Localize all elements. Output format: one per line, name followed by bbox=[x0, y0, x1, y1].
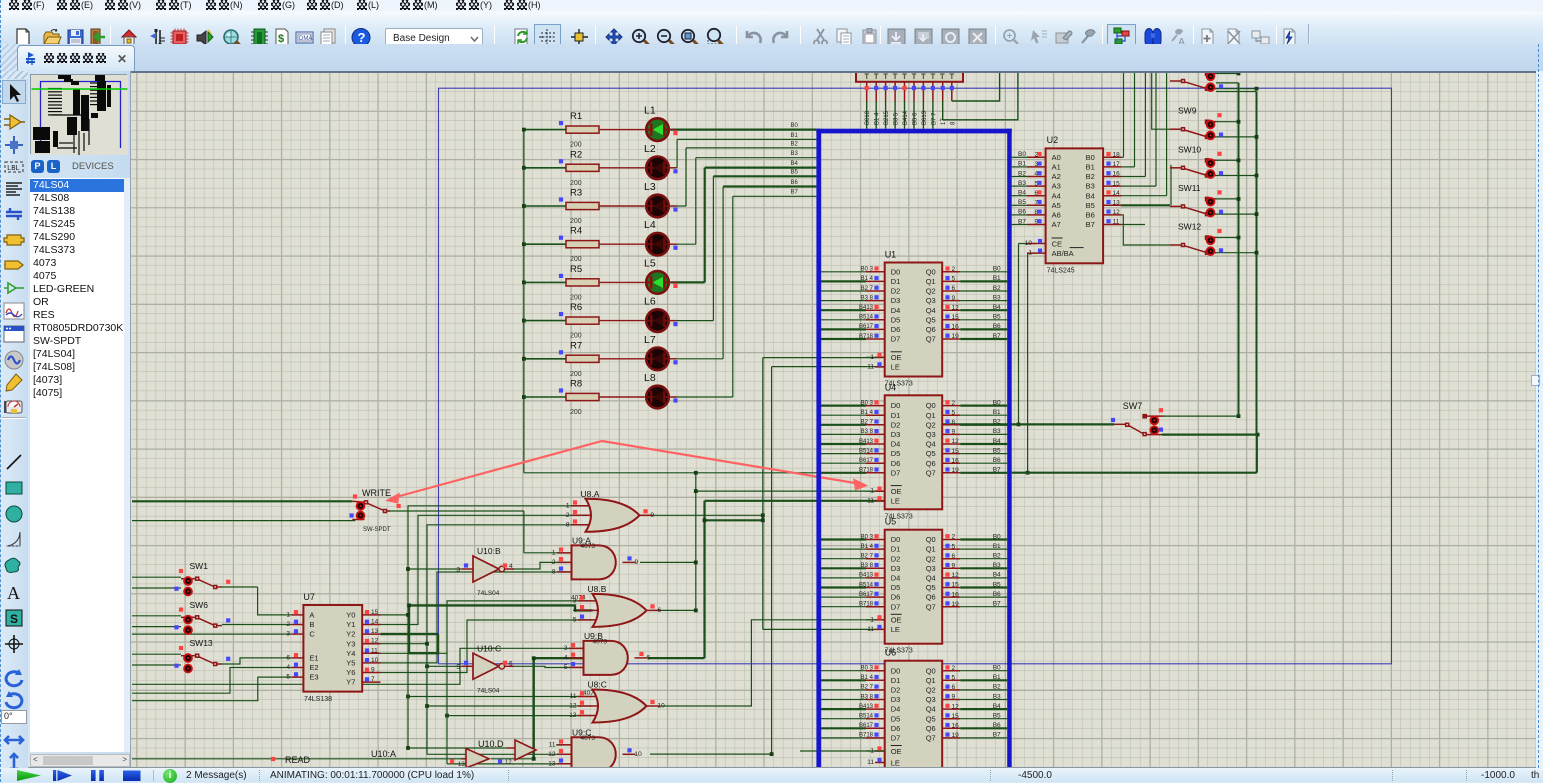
svg-text:Q6: Q6 bbox=[926, 593, 936, 602]
svg-text:D2: D2 bbox=[891, 420, 901, 429]
svg-text:Q0: Q0 bbox=[926, 666, 936, 675]
svg-text:B7: B7 bbox=[791, 190, 799, 196]
svg-text:5: 5 bbox=[564, 664, 568, 671]
svg-text:16: 16 bbox=[952, 324, 960, 331]
svg-text:B3: B3 bbox=[993, 294, 1001, 301]
svg-text:5: 5 bbox=[952, 276, 956, 283]
svg-text:U1: U1 bbox=[885, 250, 897, 260]
svg-text:D3: D3 bbox=[891, 564, 901, 573]
svg-text:15: 15 bbox=[952, 713, 960, 720]
svg-text:B5: B5 bbox=[993, 581, 1001, 588]
svg-text:11: 11 bbox=[867, 759, 874, 766]
svg-text:B1: B1 bbox=[791, 133, 799, 139]
svg-text:11: 11 bbox=[371, 647, 378, 654]
svg-text:B2: B2 bbox=[791, 141, 799, 147]
svg-text:CE: CE bbox=[1052, 239, 1062, 248]
svg-text:B0 3: B0 3 bbox=[861, 267, 874, 273]
svg-text:B: B bbox=[309, 620, 314, 629]
svg-text:12: 12 bbox=[952, 703, 960, 710]
svg-text:3: 3 bbox=[564, 645, 568, 652]
svg-text:U8.B: U8.B bbox=[588, 584, 607, 594]
svg-text:E3: E3 bbox=[309, 673, 318, 682]
svg-text:Q7: Q7 bbox=[926, 335, 936, 344]
svg-text:U2: U2 bbox=[1047, 135, 1059, 145]
svg-text:14: 14 bbox=[1113, 190, 1121, 197]
svg-text:Y3: Y3 bbox=[346, 639, 355, 648]
svg-text:B3 8: B3 8 bbox=[861, 429, 874, 435]
svg-text:B2: B2 bbox=[993, 553, 1001, 560]
svg-text:D2: D2 bbox=[891, 287, 901, 296]
svg-text:B2 7: B2 7 bbox=[861, 554, 874, 560]
svg-text:B5: B5 bbox=[993, 447, 1001, 454]
svg-text:Q3: Q3 bbox=[926, 695, 936, 704]
svg-text:U10:C: U10:C bbox=[477, 643, 501, 653]
svg-text:B1 4: B1 4 bbox=[861, 276, 874, 282]
svg-text:D6: D6 bbox=[891, 724, 901, 733]
svg-text:Y4: Y4 bbox=[346, 649, 355, 658]
svg-text:B1: B1 bbox=[1086, 163, 1095, 172]
svg-text:B0: B0 bbox=[791, 123, 799, 129]
svg-text:B0: B0 bbox=[1086, 153, 1095, 162]
svg-text:Y0: Y0 bbox=[346, 611, 355, 620]
svg-text:B4: B4 bbox=[993, 438, 1001, 445]
svg-text:D1: D1 bbox=[891, 676, 901, 685]
svg-text:B2: B2 bbox=[1086, 172, 1095, 181]
svg-text:L1: L1 bbox=[644, 105, 656, 117]
svg-text:B617: B617 bbox=[859, 458, 874, 464]
svg-text:B3: B3 bbox=[1018, 180, 1026, 187]
svg-text:B3 8: B3 8 bbox=[861, 563, 874, 569]
svg-text:B4: B4 bbox=[993, 304, 1001, 311]
svg-text:E1: E1 bbox=[309, 654, 318, 663]
svg-text:B6: B6 bbox=[993, 591, 1001, 598]
svg-text:SW9: SW9 bbox=[1178, 106, 1197, 116]
svg-text:15: 15 bbox=[1113, 180, 1121, 187]
svg-text:13: 13 bbox=[371, 628, 379, 635]
svg-text:D1: D1 bbox=[891, 277, 901, 286]
svg-text:13: 13 bbox=[1113, 200, 1121, 207]
svg-text:D4: D4 bbox=[891, 705, 901, 714]
svg-text:R5: R5 bbox=[570, 264, 582, 275]
svg-text:SW6: SW6 bbox=[190, 600, 209, 610]
svg-text:B617: B617 bbox=[859, 592, 874, 598]
svg-text:OE: OE bbox=[891, 747, 902, 756]
svg-text:D0: D0 bbox=[891, 535, 901, 544]
svg-text:R7: R7 bbox=[570, 340, 582, 351]
svg-text:D3: D3 bbox=[891, 296, 901, 305]
svg-text:Y2: Y2 bbox=[346, 630, 355, 639]
svg-text:READ: READ bbox=[285, 755, 311, 765]
svg-text:1: 1 bbox=[870, 488, 874, 495]
svg-text:D5: D5 bbox=[891, 449, 901, 458]
svg-text:A1: A1 bbox=[1052, 163, 1061, 172]
svg-text:Q2: Q2 bbox=[926, 686, 936, 695]
svg-text:14: 14 bbox=[371, 619, 379, 626]
svg-text:200: 200 bbox=[570, 371, 582, 378]
svg-text:LE: LE bbox=[891, 497, 900, 506]
svg-text:B0 3: B0 3 bbox=[861, 534, 874, 540]
svg-text:Q7: Q7 bbox=[926, 602, 936, 611]
svg-text:B0 3: B0 3 bbox=[861, 400, 874, 406]
svg-text:5: 5 bbox=[286, 674, 290, 681]
svg-text:16: 16 bbox=[952, 723, 960, 730]
svg-text:B3: B3 bbox=[791, 151, 799, 157]
svg-text:4: 4 bbox=[509, 563, 513, 570]
svg-text:D3: D3 bbox=[891, 430, 901, 439]
svg-text:74LS04: 74LS04 bbox=[477, 590, 500, 597]
svg-text:B718: B718 bbox=[859, 733, 874, 739]
svg-text:5: 5 bbox=[456, 664, 460, 671]
svg-text:Q5: Q5 bbox=[926, 714, 936, 723]
svg-text:8: 8 bbox=[552, 568, 556, 575]
svg-text:B3: B3 bbox=[1086, 182, 1095, 191]
svg-text:5: 5 bbox=[952, 409, 956, 416]
svg-text:U5: U5 bbox=[885, 517, 897, 527]
svg-text:WRITE: WRITE bbox=[362, 488, 391, 498]
svg-text:D5: D5 bbox=[891, 714, 901, 723]
svg-text:12: 12 bbox=[569, 703, 577, 710]
svg-text:B413: B413 bbox=[859, 704, 874, 710]
svg-text:6: 6 bbox=[647, 654, 651, 661]
svg-text:B2 7: B2 7 bbox=[861, 685, 874, 691]
svg-text:B3 8: B3 8 bbox=[861, 694, 874, 700]
svg-text:6: 6 bbox=[952, 285, 956, 292]
svg-text:D6: D6 bbox=[891, 593, 901, 602]
svg-text:U10:A: U10:A bbox=[371, 749, 396, 759]
svg-text:B413: B413 bbox=[859, 439, 874, 445]
svg-text:B1 4: B1 4 bbox=[875, 112, 881, 125]
svg-text:9: 9 bbox=[952, 429, 956, 436]
svg-text:B718: B718 bbox=[859, 468, 874, 474]
svg-text:SW7: SW7 bbox=[1123, 401, 1143, 411]
svg-text:B718: B718 bbox=[859, 602, 874, 608]
svg-text:SW-SPDT: SW-SPDT bbox=[363, 527, 391, 533]
svg-text:B7: B7 bbox=[993, 333, 1001, 340]
svg-text:LE: LE bbox=[891, 363, 900, 372]
svg-text:Q1: Q1 bbox=[926, 411, 936, 420]
svg-text:9: 9 bbox=[952, 563, 956, 570]
svg-text:11: 11 bbox=[570, 693, 577, 700]
svg-text:B2: B2 bbox=[993, 419, 1001, 426]
svg-text:R2: R2 bbox=[570, 149, 582, 160]
svg-text:U8:C: U8:C bbox=[588, 680, 607, 690]
svg-text:S: S bbox=[10, 612, 18, 626]
svg-text:Q3: Q3 bbox=[926, 430, 936, 439]
svg-text:D5: D5 bbox=[891, 583, 901, 592]
svg-text:200: 200 bbox=[570, 333, 582, 340]
svg-text:Q4: Q4 bbox=[926, 440, 936, 449]
svg-text:9: 9 bbox=[952, 694, 956, 701]
svg-text:D7: D7 bbox=[891, 602, 901, 611]
svg-text:200: 200 bbox=[570, 256, 582, 263]
svg-text:B4: B4 bbox=[1018, 190, 1026, 197]
svg-text:B5: B5 bbox=[993, 713, 1001, 720]
svg-text:B2: B2 bbox=[993, 285, 1001, 292]
svg-text:L7: L7 bbox=[644, 334, 656, 346]
svg-text:D4: D4 bbox=[891, 440, 901, 449]
svg-text:Q4: Q4 bbox=[926, 306, 936, 315]
svg-text:16: 16 bbox=[952, 457, 960, 464]
svg-text:Q2: Q2 bbox=[926, 420, 936, 429]
svg-text:A: A bbox=[309, 611, 314, 620]
svg-text:74LS138: 74LS138 bbox=[304, 696, 332, 703]
svg-text:6: 6 bbox=[952, 684, 956, 691]
svg-text:1: 1 bbox=[870, 354, 874, 361]
svg-text:Q1: Q1 bbox=[926, 676, 936, 685]
svg-text:B613: B613 bbox=[922, 110, 928, 125]
svg-text:L8: L8 bbox=[644, 372, 656, 384]
svg-text:B6: B6 bbox=[1086, 211, 1095, 220]
svg-text:B514: B514 bbox=[859, 448, 874, 454]
svg-text:4: 4 bbox=[573, 607, 577, 614]
svg-text:Q4: Q4 bbox=[926, 574, 936, 583]
svg-text:B1: B1 bbox=[993, 674, 1001, 681]
svg-text:D4: D4 bbox=[891, 306, 901, 315]
svg-text:B3 5: B3 5 bbox=[894, 112, 900, 125]
svg-text:2: 2 bbox=[952, 266, 956, 273]
svg-text:19: 19 bbox=[952, 467, 960, 474]
svg-text:8: 8 bbox=[566, 521, 570, 528]
svg-text:3: 3 bbox=[456, 567, 460, 574]
svg-text:B413: B413 bbox=[859, 305, 874, 311]
svg-text:B1: B1 bbox=[993, 409, 1001, 416]
svg-text:9: 9 bbox=[371, 667, 375, 674]
svg-text:16: 16 bbox=[952, 591, 960, 598]
svg-text:R4: R4 bbox=[570, 226, 582, 237]
svg-text:L6: L6 bbox=[644, 296, 656, 308]
svg-text:D0: D0 bbox=[891, 267, 901, 276]
svg-text:B3: B3 bbox=[993, 562, 1001, 569]
svg-text:U8.A: U8.A bbox=[581, 489, 600, 499]
svg-text:19: 19 bbox=[952, 333, 960, 340]
svg-text:5: 5 bbox=[573, 616, 577, 623]
svg-text:LE: LE bbox=[891, 625, 900, 634]
svg-text:1: 1 bbox=[1028, 250, 1032, 257]
svg-text:B413: B413 bbox=[859, 573, 874, 579]
svg-text:OE: OE bbox=[891, 487, 902, 496]
svg-text:D1: D1 bbox=[891, 545, 901, 554]
svg-text:A7: A7 bbox=[1052, 220, 1061, 229]
svg-text:B1 4: B1 4 bbox=[861, 410, 874, 416]
svg-text:2: 2 bbox=[952, 665, 956, 672]
svg-text:A6: A6 bbox=[1052, 211, 1061, 220]
svg-text:B2 7: B2 7 bbox=[861, 286, 874, 292]
svg-text:B7: B7 bbox=[993, 601, 1001, 608]
svg-text:R6: R6 bbox=[570, 302, 582, 313]
svg-text:Q5: Q5 bbox=[926, 315, 936, 324]
svg-text:D0: D0 bbox=[891, 666, 901, 675]
svg-text:B1: B1 bbox=[993, 275, 1001, 282]
svg-text:B0: B0 bbox=[993, 665, 1001, 672]
svg-text:Q3: Q3 bbox=[926, 296, 936, 305]
svg-text:B3: B3 bbox=[993, 428, 1001, 435]
svg-text:1: 1 bbox=[870, 616, 874, 623]
svg-text:L4: L4 bbox=[644, 219, 656, 231]
svg-text:B718: B718 bbox=[859, 334, 874, 340]
svg-text:B7: B7 bbox=[1018, 218, 1026, 225]
svg-text:U6: U6 bbox=[885, 648, 897, 658]
svg-text:U10:B: U10:B bbox=[477, 546, 501, 556]
svg-text:B1: B1 bbox=[1018, 161, 1026, 168]
svg-text:B6: B6 bbox=[1018, 209, 1026, 216]
svg-text:B7 7: B7 7 bbox=[931, 112, 937, 125]
svg-text:SW13: SW13 bbox=[190, 638, 213, 648]
svg-text:A2: A2 bbox=[1052, 172, 1061, 181]
svg-text:B0: B0 bbox=[1018, 151, 1026, 158]
svg-text:Y7: Y7 bbox=[346, 678, 355, 687]
svg-text:B5: B5 bbox=[791, 170, 799, 176]
svg-text:2: 2 bbox=[952, 534, 956, 541]
svg-text:19: 19 bbox=[952, 601, 960, 608]
svg-text:12: 12 bbox=[952, 572, 960, 579]
svg-text:2: 2 bbox=[552, 559, 556, 566]
svg-text:15: 15 bbox=[952, 448, 960, 455]
svg-text:B514: B514 bbox=[859, 315, 874, 321]
svg-text:D7: D7 bbox=[891, 734, 901, 743]
svg-text:12: 12 bbox=[505, 760, 512, 766]
svg-text:4073: 4073 bbox=[593, 638, 608, 645]
svg-text:C: C bbox=[309, 630, 315, 639]
svg-text:16: 16 bbox=[1113, 171, 1121, 178]
svg-text:D4: D4 bbox=[891, 574, 901, 583]
svg-text:Q5: Q5 bbox=[926, 449, 936, 458]
svg-text:B1: B1 bbox=[993, 543, 1001, 550]
svg-text:11: 11 bbox=[1113, 219, 1120, 226]
svg-text:1: 1 bbox=[552, 549, 556, 556]
svg-text:12: 12 bbox=[548, 751, 556, 758]
svg-text:5: 5 bbox=[952, 543, 956, 550]
svg-text:200: 200 bbox=[570, 218, 582, 225]
svg-text:6: 6 bbox=[952, 553, 956, 560]
svg-text:B3 8: B3 8 bbox=[861, 295, 874, 301]
svg-text:12: 12 bbox=[952, 304, 960, 311]
svg-text:10: 10 bbox=[658, 703, 666, 710]
svg-text:17: 17 bbox=[941, 118, 947, 125]
svg-text:6: 6 bbox=[509, 660, 513, 667]
svg-text:B0: B0 bbox=[993, 266, 1001, 273]
svg-text:6: 6 bbox=[952, 419, 956, 426]
svg-text:D7: D7 bbox=[891, 335, 901, 344]
svg-text:B5: B5 bbox=[1086, 201, 1095, 210]
svg-text:9: 9 bbox=[651, 512, 655, 519]
svg-text:200: 200 bbox=[570, 142, 582, 149]
svg-text:A3: A3 bbox=[1052, 182, 1061, 191]
svg-text:Q2: Q2 bbox=[926, 287, 936, 296]
svg-text:B5 6: B5 6 bbox=[912, 112, 918, 125]
svg-text:Q7: Q7 bbox=[926, 734, 936, 743]
svg-text:L2: L2 bbox=[644, 143, 656, 155]
svg-text:A4: A4 bbox=[1052, 191, 1061, 200]
svg-text:LBL: LBL bbox=[7, 165, 20, 173]
svg-text:D7: D7 bbox=[891, 468, 901, 477]
svg-text:B4: B4 bbox=[1086, 191, 1095, 200]
svg-text:1: 1 bbox=[566, 502, 570, 509]
svg-text:E2: E2 bbox=[309, 663, 318, 672]
svg-text:R8: R8 bbox=[570, 379, 582, 390]
svg-text:12: 12 bbox=[371, 638, 379, 645]
svg-text:10: 10 bbox=[635, 751, 643, 758]
svg-text:B4: B4 bbox=[993, 703, 1001, 710]
svg-text:B2: B2 bbox=[1018, 170, 1026, 177]
svg-text:A0: A0 bbox=[1052, 153, 1061, 162]
svg-text:9: 9 bbox=[952, 295, 956, 302]
svg-text:10: 10 bbox=[1025, 240, 1033, 247]
svg-text:Q1: Q1 bbox=[926, 545, 936, 554]
svg-text:18: 18 bbox=[1113, 152, 1121, 159]
svg-text:11: 11 bbox=[867, 497, 874, 504]
svg-text:B2: B2 bbox=[993, 684, 1001, 691]
svg-text:3: 3 bbox=[573, 597, 577, 604]
svg-text:B6: B6 bbox=[993, 722, 1001, 729]
svg-text:B215: B215 bbox=[884, 110, 890, 125]
svg-text:Q0: Q0 bbox=[926, 401, 936, 410]
svg-text:Y1: Y1 bbox=[346, 620, 355, 629]
svg-text:Q2: Q2 bbox=[926, 554, 936, 563]
svg-text:D6: D6 bbox=[891, 325, 901, 334]
svg-text:Q3: Q3 bbox=[926, 564, 936, 573]
svg-text:D3: D3 bbox=[891, 695, 901, 704]
svg-text:B414: B414 bbox=[903, 110, 909, 125]
svg-text:A: A bbox=[7, 583, 20, 603]
svg-text:17: 17 bbox=[1113, 161, 1121, 168]
svg-text:L5: L5 bbox=[644, 257, 656, 269]
svg-text:Q4: Q4 bbox=[926, 705, 936, 714]
svg-text:19: 19 bbox=[952, 732, 960, 739]
svg-text:OE: OE bbox=[891, 616, 902, 625]
svg-text:200: 200 bbox=[570, 294, 582, 301]
svg-text:SW12: SW12 bbox=[1178, 222, 1201, 232]
svg-text:6: 6 bbox=[658, 607, 662, 614]
svg-text:B7: B7 bbox=[1086, 220, 1095, 229]
svg-text:6: 6 bbox=[286, 654, 290, 661]
svg-text:L3: L3 bbox=[644, 181, 656, 193]
svg-text:U7: U7 bbox=[303, 592, 315, 602]
svg-text:Q7: Q7 bbox=[926, 468, 936, 477]
svg-text:12: 12 bbox=[1113, 209, 1121, 216]
svg-text:B514: B514 bbox=[859, 582, 874, 588]
svg-text:B4: B4 bbox=[993, 572, 1001, 579]
svg-text:11: 11 bbox=[549, 741, 556, 748]
svg-text:74LS04: 74LS04 bbox=[477, 687, 500, 694]
svg-text:B7: B7 bbox=[993, 732, 1001, 739]
svg-text:B6: B6 bbox=[993, 323, 1001, 330]
svg-text:R1: R1 bbox=[570, 111, 582, 122]
svg-text:Q0: Q0 bbox=[926, 535, 936, 544]
svg-text:13: 13 bbox=[569, 712, 577, 719]
svg-text:Q6: Q6 bbox=[926, 325, 936, 334]
svg-text:B0: B0 bbox=[993, 399, 1001, 406]
svg-text:15: 15 bbox=[952, 314, 960, 321]
svg-text:U10.D: U10.D bbox=[478, 739, 504, 749]
svg-text:B018: B018 bbox=[865, 110, 871, 125]
svg-text:74LS245: 74LS245 bbox=[1047, 268, 1075, 275]
svg-text:B4: B4 bbox=[791, 161, 799, 167]
svg-text:B2 7: B2 7 bbox=[861, 420, 874, 426]
svg-text:B7: B7 bbox=[993, 467, 1001, 474]
svg-text:Q6: Q6 bbox=[926, 724, 936, 733]
svg-text:OE: OE bbox=[891, 353, 902, 362]
svg-text:Q1: Q1 bbox=[926, 277, 936, 286]
svg-text:D6: D6 bbox=[891, 459, 901, 468]
svg-text:11: 11 bbox=[867, 363, 874, 370]
svg-text:AB/BA: AB/BA bbox=[1052, 249, 1074, 258]
svg-text:200: 200 bbox=[570, 409, 582, 416]
svg-text:SW1: SW1 bbox=[190, 561, 209, 571]
svg-text:Y5: Y5 bbox=[346, 659, 355, 668]
svg-text:5: 5 bbox=[952, 675, 956, 682]
svg-text:D5: D5 bbox=[891, 315, 901, 324]
svg-text:B617: B617 bbox=[859, 723, 874, 729]
